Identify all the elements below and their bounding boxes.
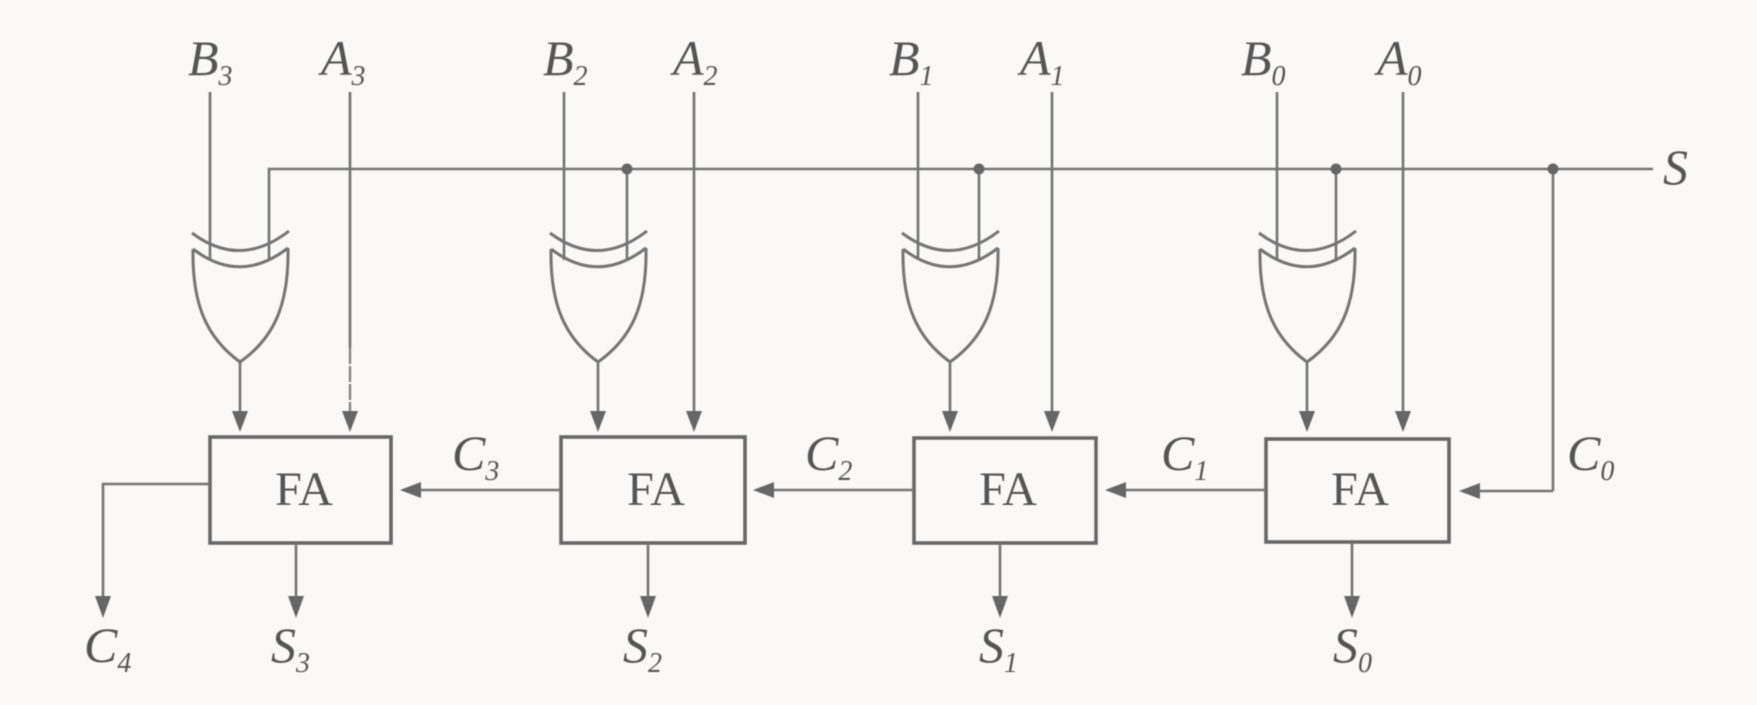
wire sum S2 [640, 543, 656, 618]
wire A0 input [1395, 92, 1411, 432]
svg-text:FA: FA [979, 463, 1037, 516]
svg-text:B2: B2 [543, 30, 588, 92]
wire U3 output [942, 362, 958, 432]
svg-text:C3: C3 [452, 425, 499, 487]
wire A2 input [686, 92, 702, 432]
wire B1 input [917, 92, 920, 260]
wire sum S3 [288, 543, 304, 618]
wire B3 input [209, 92, 212, 260]
xor gate U1 (bit 3) [192, 231, 289, 362]
svg-text:S0: S0 [1333, 617, 1372, 679]
svg-text:C1: C1 [1161, 425, 1208, 487]
wire carry C0 [1459, 483, 1553, 499]
svg-text:A1: A1 [1017, 30, 1065, 92]
svg-text:FA: FA [627, 463, 685, 516]
svg-text:FA: FA [1331, 463, 1389, 516]
wire S branch to XOR U3 [978, 169, 981, 261]
wire A1 input [1044, 92, 1060, 432]
wire S branch to XOR U4 [1335, 169, 1338, 261]
wire B2 input [563, 92, 566, 260]
svg-text:C4: C4 [84, 617, 131, 679]
svg-text:B0: B0 [1241, 30, 1286, 92]
svg-text:C2: C2 [805, 425, 852, 487]
full adder FA1 box [914, 438, 1096, 543]
wire A3 input [342, 92, 358, 432]
node S net: horizontal select line [269, 169, 1653, 491]
full adder FA2 box [561, 437, 745, 543]
wire sum S0 [1344, 543, 1360, 618]
wire carry C3 [400, 482, 561, 498]
svg-text:FA: FA [275, 463, 333, 516]
xor gate U2 (bit 2) [550, 231, 647, 362]
junction dot S/C0 [1548, 164, 1559, 175]
wire U4 output [1299, 362, 1315, 432]
svg-text:S3: S3 [271, 617, 310, 679]
svg-text:S2: S2 [623, 617, 662, 679]
xor gate U4 (bit 0) [1259, 231, 1356, 362]
wire U1 output [232, 362, 248, 432]
wire carry C1 [1105, 482, 1266, 498]
wire sum S1 [992, 543, 1008, 618]
wire carry C2 [753, 482, 914, 498]
svg-text:A0: A0 [1374, 30, 1422, 92]
junction dot S/U4 [1331, 164, 1342, 175]
wire U2 output [590, 362, 606, 432]
svg-text:A3: A3 [318, 30, 366, 92]
wire S branch to XOR U2 [626, 169, 629, 261]
wire carry out C4 [95, 484, 210, 618]
svg-text:S: S [1663, 139, 1688, 195]
full adder FA3 box [210, 437, 391, 543]
xor gate U3 (bit 1) [902, 231, 999, 362]
svg-text:A2: A2 [670, 30, 718, 92]
wire S branch to C0 [1552, 169, 1555, 491]
junction dot S/U2 [622, 164, 633, 175]
svg-text:B3: B3 [188, 30, 233, 92]
svg-text:B1: B1 [889, 30, 934, 92]
full adder FA0 box [1266, 439, 1449, 542]
wire B0 input [1276, 92, 1279, 260]
wire S horizontal [269, 169, 1653, 261]
svg-text:C0: C0 [1567, 425, 1614, 487]
svg-text:S1: S1 [979, 617, 1018, 679]
junction dot S/U3 [974, 164, 985, 175]
